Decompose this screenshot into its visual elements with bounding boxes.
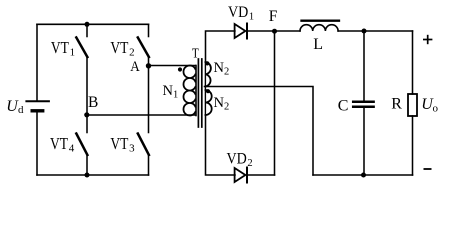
- junction dot capacitor bottom: [361, 173, 366, 178]
- diode VD1 triangle: [235, 24, 246, 38]
- switch VT3: blade: [138, 134, 149, 156]
- switch VT1: top contact stub: [86, 24, 88, 36]
- inductor L core bar: [302, 20, 340, 22]
- svg-text:o: o: [433, 103, 439, 115]
- wire: node A down to VT3 (crosses B wire): [148, 66, 150, 133]
- svg-text:VD: VD: [227, 151, 247, 168]
- transformer core bar right: [201, 59, 203, 127]
- svg-text:3: 3: [129, 142, 135, 154]
- wire: inductor to top-right corner: [338, 30, 412, 32]
- svg-text:R: R: [391, 96, 402, 113]
- diode VD2 triangle: [235, 168, 246, 182]
- svg-text:T: T: [192, 46, 199, 61]
- wire: left vertical above battery: [36, 24, 38, 100]
- svg-text:2: 2: [247, 158, 252, 169]
- junction dot capacitor top: [362, 29, 367, 34]
- svg-text:VT: VT: [110, 134, 128, 153]
- wire: node A to primary top: [149, 65, 196, 67]
- transformer primary winding N1 chord wire: [195, 66, 197, 116]
- switch VT1: blade: [76, 38, 87, 58]
- inductor L winding: [300, 25, 338, 31]
- svg-text:VT: VT: [51, 38, 69, 57]
- output minus sign: [424, 168, 432, 170]
- wire: riser from VD2 up to node F (crosses tap wire): [274, 31, 276, 175]
- wire: VT2 to node A: [148, 57, 150, 66]
- junction dot node B: [84, 112, 89, 117]
- svg-text:1: 1: [173, 90, 178, 101]
- diode VD1 cathode bar: [246, 24, 248, 39]
- wire: secondary top up to VD1 line: [206, 31, 235, 62]
- wire: resistor to bottom-right corner: [412, 116, 414, 175]
- resistor R box: [408, 94, 417, 116]
- wire: bottom-left rail: [37, 174, 149, 176]
- svg-text:2: 2: [224, 67, 229, 78]
- wire: bottom-right rail: [313, 174, 413, 176]
- capacitor C top plate: [353, 100, 373, 103]
- svg-text:2: 2: [129, 47, 135, 59]
- wire: node F to inductor: [275, 30, 301, 32]
- wire: VT1 to node B: [86, 57, 88, 116]
- junction dot top rail / VT1: [85, 22, 90, 27]
- polarity dot N2 lower: [206, 89, 210, 93]
- svg-text:N: N: [214, 95, 225, 111]
- battery source Ud: long plate: [26, 100, 49, 102]
- svg-text:4: 4: [69, 142, 75, 154]
- svg-text:VT: VT: [110, 38, 128, 57]
- wire: VD1 to node F: [247, 30, 275, 32]
- polarity dot N1: [178, 67, 182, 71]
- wire: capacitor branch top: [363, 31, 365, 100]
- wire: VD2 to vertical riser: [247, 174, 275, 176]
- wire: node B to primary bottom: [87, 114, 196, 116]
- svg-text:VD: VD: [228, 4, 248, 21]
- switch VT2: top contact stub: [148, 24, 150, 36]
- switch VT4: top contact stub from B: [86, 115, 88, 133]
- junction dot node F: [272, 29, 277, 34]
- diode VD2 cathode bar: [246, 168, 248, 183]
- junction dot bottom rail / VT4: [85, 173, 90, 178]
- svg-text:VT: VT: [50, 134, 68, 153]
- svg-text:F: F: [269, 8, 278, 25]
- svg-text:1: 1: [70, 47, 76, 59]
- transformer secondary winding N2 upper chord wire: [204, 62, 206, 87]
- svg-text:L: L: [313, 36, 323, 53]
- wire: capacitor branch bottom: [363, 108, 365, 175]
- transformer secondary winding N2 upper turns: [205, 62, 211, 87]
- transformer primary winding N1 turns: [183, 65, 195, 115]
- transformer core bar left: [197, 59, 199, 127]
- svg-text:A: A: [130, 59, 140, 75]
- svg-text:C: C: [338, 97, 349, 114]
- svg-text:2: 2: [224, 102, 229, 113]
- wire: top rail: [37, 23, 149, 25]
- svg-text:1: 1: [249, 11, 254, 22]
- wire: left vertical below battery: [36, 113, 38, 176]
- transformer secondary winding N2 lower turns: [205, 90, 211, 115]
- capacitor C bottom plate: [353, 106, 373, 109]
- battery source Ud: short thick plate: [32, 109, 43, 112]
- junction dot node A: [146, 63, 151, 68]
- svg-text:d: d: [18, 104, 24, 116]
- switch VT4: blade: [76, 134, 87, 156]
- wire: VT3 to bottom rail: [148, 155, 150, 176]
- wire: center tap to right then down: [205, 87, 314, 176]
- transformer secondary winding N2 lower chord wire: [204, 87, 206, 116]
- switch VT2: blade: [138, 38, 149, 58]
- wire: VT4 to bottom rail: [86, 155, 88, 176]
- polarity dot N2 upper: [205, 61, 209, 65]
- wire: right vertical down to resistor: [412, 31, 414, 94]
- output plus sign: [423, 39, 432, 41]
- svg-text:B: B: [88, 94, 98, 111]
- wire: secondary bottom down to VD2 line: [206, 115, 236, 175]
- svg-text:N: N: [214, 60, 225, 76]
- svg-text:N: N: [163, 83, 174, 99]
